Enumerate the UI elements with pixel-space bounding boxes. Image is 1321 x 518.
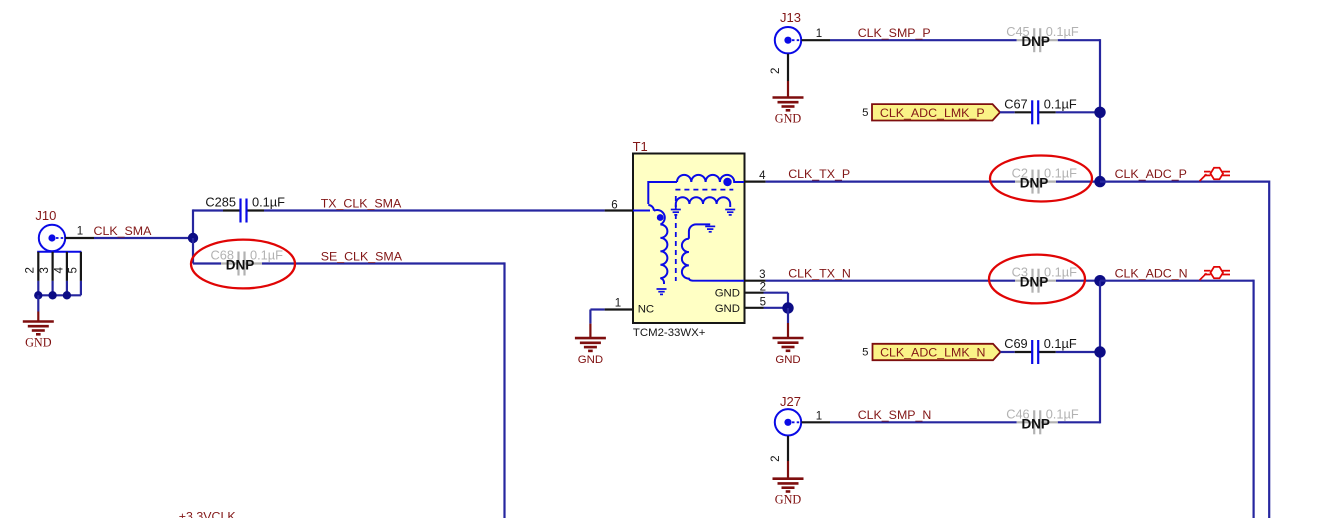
svg-text:J27: J27 [780,394,801,409]
svg-text:CLK_ADC_P: CLK_ADC_P [1115,167,1187,181]
svg-text:CLK_SMP_P: CLK_SMP_P [858,26,931,40]
differential pair marker P [1200,174,1207,181]
svg-text:DNP: DNP [1021,34,1050,49]
svg-text:0.1µF: 0.1µF [250,248,283,263]
junction at C2/bus [1094,176,1105,187]
pin 1 of J10 [65,237,94,239]
pin 1 of J13 [802,39,831,41]
wire vertical bus right bottom [1099,281,1101,424]
wire TX_CLK_SMA [192,209,194,238]
capacitor C46 0.1uF DNP [1017,421,1034,423]
capacitor C285 0.1uF [223,209,241,211]
svg-text:GND: GND [715,303,740,315]
svg-text:GND: GND [715,288,740,300]
svg-text:TX_CLK_SMA: TX_CLK_SMA [321,196,402,210]
capacitor C68 0.1uF DNP [221,262,239,264]
T1 pin 1 [605,308,633,310]
wire CLK_SMA [94,237,193,239]
svg-text:GND: GND [775,112,802,126]
J10 shield pins 2-5 [37,251,81,253]
svg-text:5: 5 [862,107,868,119]
connector J13 [775,27,801,53]
wire CLK_TX_N [766,280,1015,282]
DNP ellipse around C2 [990,156,1092,202]
svg-text:0.1µF: 0.1µF [1046,406,1079,421]
T1 mini ground winding2 left [671,209,681,211]
J10 pin 3 [51,252,53,281]
svg-text:2: 2 [770,68,782,74]
T1 pin6 inner stub [633,210,650,212]
wire tag to C69 [1001,351,1015,353]
svg-text:GND: GND [25,336,52,350]
T1 pin 5 [745,307,764,309]
svg-text:2: 2 [770,455,782,461]
svg-text:5: 5 [862,347,868,359]
T1 second horizontal winding [676,197,730,204]
pin 2 of J27 [787,436,789,461]
wire CLK_TX_P [766,181,1015,183]
svg-text:+3.3VCLK: +3.3VCLK [179,510,237,518]
capacitor C45 0.1uF DNP [1017,39,1034,41]
svg-text:1: 1 [615,298,621,310]
capacitor C67 0.1uF [1015,111,1032,113]
ground GND at J27 [787,461,789,479]
differential pair marker N [1200,273,1207,280]
svg-text:T1: T1 [633,139,648,154]
svg-text:CLK_TX_N: CLK_TX_N [788,266,851,280]
wire CLK_SMP_N [830,421,1017,423]
T1 pin6 hook winding [648,205,664,225]
connector J10 [39,225,65,251]
svg-text:5: 5 [67,267,79,273]
T1 right vertical winding [682,239,744,281]
svg-text:CLK_ADC_LMK_P: CLK_ADC_LMK_P [880,106,985,120]
wire T1 pin1 to gnd [590,308,604,310]
capacitor C3 0.1uF DNP [1015,280,1033,282]
T1 left vertical winding [660,225,667,285]
wire CLK_ADC_P to edge [1100,181,1269,183]
DNP ellipse around C3 [989,255,1085,304]
svg-text:0.1µF: 0.1µF [1046,24,1079,39]
ground GND at J10 [37,312,39,322]
svg-text:1: 1 [816,28,822,40]
svg-text:GND: GND [775,354,800,366]
wire T1 gnd [787,308,789,323]
svg-text:3: 3 [759,269,765,281]
T1 pin 6 [605,209,633,211]
svg-text:NC: NC [638,303,654,315]
wire CLK_ADC_N to edge [1100,280,1254,282]
ground GND at T1 pins 2/5 [787,323,789,338]
pin 2 of J13 [787,54,789,81]
T1 pin 2 [745,292,764,294]
harness tag CLK_ADC_LMK_P [872,104,1000,120]
DNP ellipse around C68 [191,240,295,289]
svg-text:6: 6 [611,200,617,212]
capacitor C2 0.1uF DNP [1015,181,1033,183]
junction T1 gnd [782,302,793,313]
T1 pin 3 [745,280,766,282]
J10 pin 5 [80,252,82,281]
svg-text:C67: C67 [1004,96,1027,111]
svg-text:0.1µF: 0.1µF [1044,265,1077,280]
wire CLK_SMP_P [830,39,1017,41]
svg-text:CLK_ADC_N: CLK_ADC_N [1115,266,1188,280]
svg-text:3: 3 [39,267,51,273]
T1 core dashed lines [675,189,733,191]
svg-text:DNP: DNP [1021,416,1050,431]
svg-text:4: 4 [759,170,766,182]
svg-text:DNP: DNP [1020,176,1049,191]
wire J10 to ground [37,295,39,311]
ground GND at T1 pin1 [589,324,591,339]
svg-text:2: 2 [25,267,37,273]
svg-text:CLK_TX_P: CLK_TX_P [788,167,850,181]
junction dots J10 [34,291,42,299]
T1 mini ground tap [705,225,715,227]
svg-text:GND: GND [578,354,603,366]
wire tag to C67 [1000,111,1015,113]
svg-text:TCM2-33WX+: TCM2-33WX+ [633,327,706,339]
wire SE_CLK_SMA [192,238,194,264]
svg-text:J10: J10 [35,208,56,223]
junction CLK_SMA node [188,233,198,243]
svg-text:1: 1 [77,226,83,238]
wire J10 shield bus [80,281,82,295]
junction at C67/bus [1094,107,1105,118]
svg-text:DNP: DNP [226,258,255,273]
svg-text:1: 1 [816,410,822,422]
svg-text:DNP: DNP [1020,275,1049,290]
connector J27 [775,409,801,435]
J10 pin 2 [37,252,39,281]
T1 polarity dot left [657,214,664,221]
wire vertical bus right top [1099,39,1101,182]
junction at C69/bus [1094,346,1105,357]
svg-text:CLK_SMP_N: CLK_SMP_N [858,408,932,422]
svg-text:CLK_ADC_LMK_N: CLK_ADC_LMK_N [880,346,985,360]
svg-text:GND: GND [775,493,802,507]
svg-text:CLK_SMA: CLK_SMA [94,224,153,238]
svg-text:0.1µF: 0.1µF [252,195,285,210]
svg-text:0.1µF: 0.1µF [1044,96,1077,111]
svg-text:4: 4 [53,267,65,274]
svg-text:SE_CLK_SMA: SE_CLK_SMA [321,250,403,264]
capacitor C69 0.1uF [1015,351,1032,353]
T1 mini ground winding2 right [725,209,735,211]
J10 pin 4 [66,252,68,281]
svg-text:C285: C285 [205,195,236,210]
T1 polarity dot top [723,178,731,186]
T1 pin 4 [745,181,766,183]
T1 tertiary tap [689,224,710,238]
T1 top winding (pin4 side) [677,175,744,182]
harness tag CLK_ADC_LMK_N [873,344,1001,360]
ground GND at J13 [787,81,789,98]
svg-text:J13: J13 [780,10,801,25]
svg-text:0.1µF: 0.1µF [1044,166,1077,181]
T1 mini ground left winding [657,288,667,290]
junction at C3/bus [1094,275,1105,286]
svg-text:0.1µF: 0.1µF [1044,336,1077,351]
pin 1 of J27 [802,421,831,423]
svg-text:C69: C69 [1004,336,1027,351]
